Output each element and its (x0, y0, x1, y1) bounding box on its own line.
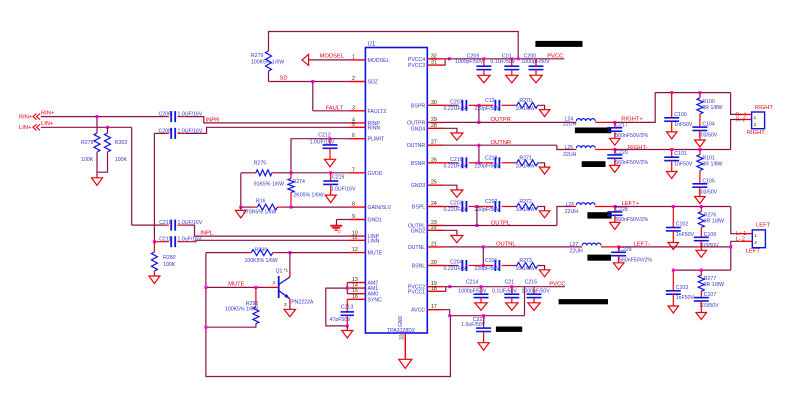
pin 32 PVCC4 (408, 53, 444, 63)
svg-text:C204: C204 (450, 260, 463, 266)
svg-text:100K5% 1/6W: 100K5% 1/6W (225, 306, 258, 312)
resistor R271 (511, 155, 545, 169)
wire LEFT+ bus (615, 205, 731, 208)
wire RIGHT- bus (615, 148, 731, 151)
svg-text:22: 22 (431, 225, 437, 231)
node AM1 (346, 287, 349, 290)
svg-text:1.0UF/16V: 1.0UF/16V (310, 140, 335, 146)
pin 13 AM2 (349, 277, 378, 287)
svg-text:10 1/6W: 10 1/6W (516, 207, 535, 213)
ground C103 (668, 306, 679, 313)
wire LEFT- lower bus (672, 269, 731, 272)
pin 22 GND2 (411, 225, 444, 235)
capacitor C106 (694, 232, 719, 251)
capacitor C13 (474, 98, 511, 112)
svg-text:C212: C212 (318, 133, 331, 139)
svg-text:LEFT: LEFT (756, 222, 771, 228)
wire AVCC row (450, 315, 525, 317)
net RIGHT+ (621, 117, 643, 123)
svg-text:C106: C106 (704, 232, 717, 238)
svg-text:C215: C215 (525, 279, 538, 285)
ground C215 (528, 303, 540, 311)
svg-text:OUTPR: OUTPR (491, 117, 511, 123)
node top wire joins PVCC (517, 57, 520, 60)
svg-text:33: 33 (400, 334, 406, 340)
capacitor C219 (323, 173, 356, 195)
op-amp U1 TPA3128D2 IC body (365, 42, 427, 335)
svg-text:MUTE: MUTE (228, 281, 245, 287)
capacitor C103 (666, 270, 695, 306)
svg-text:R274: R274 (293, 179, 306, 185)
pin 18 PVCC1 (408, 286, 444, 296)
ground Q1 emitter (284, 305, 296, 317)
node RIN+ R278 (96, 115, 99, 118)
wire AVCC to PVCC (524, 287, 526, 316)
pin 15 AM0 (349, 288, 378, 298)
MODSEL open flag (302, 54, 349, 66)
resistor R279 (251, 51, 284, 71)
ground C105 (695, 197, 706, 204)
svg-text:PVCC3: PVCC3 (408, 63, 425, 69)
svg-text:26: 26 (431, 157, 437, 163)
node loop mute (204, 286, 207, 289)
svg-text:SYNC: SYNC (368, 297, 383, 303)
wire LIN+ across (41, 126, 132, 128)
svg-text:L26: L26 (566, 202, 575, 208)
wire GND3 (444, 185, 457, 190)
wire AM2-AM1-AM0 tie (347, 283, 349, 294)
redaction bar top (535, 41, 582, 47)
svg-text:1nF50V: 1nF50V (674, 122, 693, 128)
wire SYNC to C213 (347, 299, 349, 312)
svg-text:C229: C229 (619, 247, 632, 253)
wire LIN+ down (131, 127, 133, 225)
svg-text:C13: C13 (485, 98, 495, 104)
wire LIN+ to C210 (132, 224, 164, 226)
capacitor C203 (444, 201, 477, 214)
capacitor C100 (664, 93, 693, 132)
node PVCC2 row (448, 285, 451, 288)
svg-text:RINN: RINN (368, 125, 381, 131)
svg-text:100K: 100K (163, 262, 176, 268)
svg-text:GND2: GND2 (411, 228, 426, 234)
node OUTPR (477, 121, 480, 124)
svg-text:GND3: GND3 (411, 183, 426, 189)
wire AM loop (326, 288, 348, 326)
svg-text:C100: C100 (674, 112, 687, 118)
redaction bar L27 (587, 255, 611, 261)
inductor L27 (570, 242, 619, 255)
svg-text:11: 11 (352, 235, 357, 241)
svg-text:MUTE: MUTE (368, 251, 383, 257)
svg-text:25: 25 (431, 180, 437, 186)
wire R- down (731, 120, 741, 150)
wire BSPL to OUTPL (476, 207, 478, 226)
resistor R16 (241, 199, 291, 216)
pin 10 LINP (349, 231, 380, 241)
svg-text:AVCC: AVCC (411, 308, 425, 314)
svg-text:RIGHT+: RIGHT+ (621, 117, 643, 123)
pin 26 BSNR (411, 157, 444, 167)
svg-text:LINN: LINN (368, 238, 380, 244)
capacitor C104 (692, 122, 717, 140)
ground for pin 33 (399, 359, 412, 368)
resistor R101 (697, 150, 723, 184)
wire GVDD left down (240, 173, 242, 207)
ground C107 (696, 313, 707, 320)
svg-text:R278: R278 (81, 140, 94, 146)
node MUTE collector (288, 251, 291, 254)
svg-text:C206: C206 (159, 112, 172, 118)
resistor R278 (81, 117, 100, 178)
pin 19 PVCC2 (408, 281, 444, 291)
wire gain gnd lead (240, 207, 242, 210)
pin 30 BSPR (411, 100, 443, 110)
svg-text:*1: *1 (284, 268, 289, 273)
pin 24 BSPL (412, 201, 444, 211)
ground C212 (325, 159, 336, 167)
ground C102 (668, 243, 679, 250)
wire GND4 (444, 128, 457, 133)
wire OUTPL step up (557, 207, 570, 226)
ground C219 (325, 195, 336, 203)
svg-text:R272: R272 (519, 199, 532, 205)
pin 25 GND3 (411, 180, 444, 190)
svg-text:R279: R279 (251, 53, 264, 59)
ground R271 (539, 167, 550, 174)
ground C228 (610, 222, 621, 229)
capacitor C204 (444, 260, 484, 273)
svg-text:PVCC1: PVCC1 (408, 289, 425, 295)
svg-text:BSNR: BSNR (411, 161, 426, 167)
node AVCC (448, 314, 451, 317)
svg-text:22UH: 22UH (563, 152, 577, 158)
wire pin18 bracket (444, 287, 446, 292)
svg-text:OUTPL: OUTPL (491, 220, 511, 226)
wire OUTPL row (444, 220, 557, 226)
svg-text:1.0uF/50V: 1.0uF/50V (461, 322, 485, 328)
wire C208 left down (153, 133, 155, 241)
pin 4 RINP (349, 117, 380, 127)
svg-text:0.1UF/50V: 0.1UF/50V (492, 289, 517, 295)
pin 12 MUTE (349, 247, 383, 257)
svg-text:2: 2 (754, 122, 757, 128)
wire OUTNR step (557, 145, 570, 149)
svg-text:OUTNR: OUTNR (407, 143, 426, 149)
node C222 (482, 314, 485, 317)
ground C220 (610, 165, 621, 172)
node C219 (329, 171, 332, 174)
ground C222 (478, 343, 489, 351)
svg-text:R16: R16 (256, 199, 266, 205)
ground R278/R303 (92, 178, 103, 186)
svg-text:C107: C107 (704, 292, 717, 298)
ground C200 (530, 75, 542, 83)
svg-text:2: 2 (754, 240, 757, 246)
wire LEFT- bus (619, 246, 731, 248)
capacitor C206 (159, 111, 203, 122)
svg-text:3R 1/8W: 3R 1/8W (704, 282, 724, 288)
node C211 R280 (153, 240, 156, 243)
svg-text:12: 12 (352, 247, 358, 253)
ground C214 (475, 303, 487, 311)
ground C217 (610, 138, 621, 145)
wire PVCC row (444, 53, 565, 59)
svg-text:24: 24 (431, 201, 437, 207)
pin 9 GND1 (349, 214, 382, 224)
redaction bar L26 (587, 212, 611, 218)
ground GAIN row (235, 210, 246, 218)
svg-text:470R5% 1/6W: 470R5% 1/6W (243, 209, 277, 215)
wire RIGHT+ up (615, 93, 655, 123)
svg-text:C208: C208 (159, 128, 172, 134)
svg-text:220pF/50V: 220pF/50V (474, 163, 500, 169)
svg-text:BSPL: BSPL (412, 205, 425, 211)
svg-text:1000pF/50V: 1000pF/50V (458, 289, 487, 295)
svg-text:INPR: INPR (206, 118, 220, 124)
svg-text:TPA3128D2: TPA3128D2 (387, 328, 415, 334)
wire bus to R+ (731, 93, 741, 115)
resistor R303 (97, 127, 128, 172)
node R274 bottom (290, 206, 293, 209)
wire RIGHT+ bus (655, 91, 730, 94)
svg-text:PN2222A: PN2222A (291, 299, 314, 305)
pin 14 AM1 (349, 283, 378, 293)
svg-text:C218: C218 (485, 155, 498, 161)
capacitor C201 (474, 258, 511, 272)
ground C10 (506, 75, 518, 83)
svg-text:3R 1/8W: 3R 1/8W (702, 105, 722, 111)
svg-text:3: 3 (352, 105, 355, 111)
capacitor C105 (692, 178, 717, 196)
svg-text:GND4: GND4 (411, 126, 426, 132)
pin 17 AVCC (411, 304, 443, 314)
svg-text:1: 1 (352, 54, 355, 60)
svg-text:100K5% 1/6W: 100K5% 1/6W (251, 60, 284, 66)
svg-text:0.22UF/50: 0.22UF/50 (444, 207, 468, 213)
capacitor C214 (458, 279, 488, 303)
pin 33 GND pad (400, 333, 406, 359)
node GVDD R274 (290, 171, 293, 174)
pin 7 GVDD (349, 167, 383, 177)
svg-text:17: 17 (431, 304, 437, 310)
node PVCC row (448, 57, 451, 60)
ground R273 (539, 270, 550, 277)
ground GND4 (451, 133, 463, 140)
wire INPR to pin 4 (186, 117, 349, 124)
redaction bar L24 (575, 128, 611, 134)
resistor R275 (241, 161, 291, 188)
ground GND2 (451, 236, 463, 243)
svg-text:16: 16 (352, 294, 358, 300)
svg-text:PVCC: PVCC (549, 281, 565, 287)
svg-text:R273: R273 (519, 258, 532, 264)
svg-text:C207: C207 (450, 99, 463, 105)
transistor Q1 PN2222A (273, 253, 314, 307)
wire LEFT+ to L+ (731, 207, 741, 234)
svg-text:100K5% 1/6W: 100K5% 1/6W (245, 258, 278, 264)
svg-text:BSPR: BSPR (411, 103, 425, 109)
svg-text:C203: C203 (450, 201, 463, 207)
resistor R273 (511, 258, 545, 272)
svg-text:GAIN/SLV: GAIN/SLV (368, 205, 392, 211)
svg-text:103/50V: 103/50V (698, 189, 718, 195)
ground R270 (539, 110, 550, 117)
node LIN+ R303 (106, 126, 109, 129)
capacitor C101 (664, 150, 693, 172)
svg-text:FAULT: FAULT (326, 105, 344, 111)
svg-text:0.22UF/50: 0.22UF/50 (444, 106, 468, 112)
inductor L24 (563, 117, 615, 128)
svg-text:22UH: 22UH (563, 122, 577, 128)
resistor R280 (151, 242, 175, 276)
svg-text:7: 7 (352, 167, 355, 173)
svg-text:0.1UF/50V: 0.1UF/50V (490, 59, 515, 65)
capacitor C10 (490, 53, 519, 75)
capacitor C208 (154, 128, 202, 139)
pin 29 OUTPR (407, 117, 443, 127)
svg-text:2K05% 1/6W: 2K05% 1/6W (293, 192, 323, 198)
ground C104 (695, 140, 706, 147)
svg-text:10 1/6W: 10 1/6W (516, 163, 535, 169)
svg-text:30: 30 (431, 100, 437, 106)
wire OUTNR row (444, 140, 557, 147)
port LIN+ (19, 121, 54, 131)
svg-text:21: 21 (431, 241, 437, 247)
pin 28 GND4 (411, 123, 444, 133)
wire pin31 bracket (444, 59, 446, 65)
svg-text:C228: C228 (615, 207, 628, 213)
capacitor C215 (522, 279, 551, 303)
svg-text:100K: 100K (81, 157, 94, 163)
pin 6 PLIMIT (349, 133, 385, 143)
capacitor C202 (474, 199, 511, 213)
svg-text:2: 2 (273, 280, 276, 285)
svg-text:R303: R303 (115, 140, 128, 146)
svg-text:RIGHT: RIGHT (755, 105, 773, 111)
svg-text:1: 1 (754, 233, 757, 239)
pin 8 GAIN/SLV (349, 202, 392, 212)
ground R280 (149, 276, 160, 284)
capacitor C200 (521, 53, 550, 75)
wire GND1 (337, 220, 350, 226)
wire big loop (206, 253, 451, 377)
port RIN+ (19, 111, 55, 121)
ground C106 (696, 250, 707, 257)
svg-text:C101: C101 (674, 151, 687, 157)
node loop R296 (204, 326, 207, 329)
svg-text:MODSEL: MODSEL (320, 54, 345, 60)
resistor R272 (511, 199, 545, 213)
resistor R277 (698, 270, 724, 298)
wire GND2 (444, 230, 457, 235)
wire RIN+ to C206 (41, 116, 163, 118)
svg-text:2: 2 (352, 76, 355, 82)
svg-text:1nF50V: 1nF50V (674, 162, 693, 168)
wire PVCC bottom row (444, 281, 566, 287)
svg-text:220pF/50V: 220pF/50V (474, 106, 500, 112)
svg-text:1nF50V: 1nF50V (676, 232, 695, 238)
svg-text:22UH: 22UH (570, 249, 584, 255)
pin 27 OUTNR (407, 140, 444, 150)
svg-text:GVDD: GVDD (368, 171, 383, 177)
wire OUTNR to BSNR (478, 145, 480, 163)
svg-text:C102: C102 (676, 222, 689, 228)
resistor R100 (697, 93, 723, 128)
wire BSPR to OUTPR (478, 105, 480, 122)
node C204/C201 (482, 264, 485, 267)
svg-text:9: 9 (352, 214, 355, 220)
svg-text:GND1: GND1 (368, 218, 383, 224)
svg-text:PLIMIT: PLIMIT (368, 137, 386, 143)
svg-text:RIGHT: RIGHT (747, 130, 765, 136)
svg-text:GND: GND (398, 316, 404, 328)
svg-text:103/50V: 103/50V (699, 243, 719, 249)
pin 20 BSNL (412, 260, 444, 270)
connector RIGHT (736, 105, 774, 136)
svg-text:22UH: 22UH (565, 209, 579, 215)
wire C208 to pin 5 RINN (186, 127, 349, 133)
wire C213 gnd lead (346, 326, 348, 331)
capacitor C217 (607, 121, 648, 139)
pin 5 RINN (349, 122, 380, 132)
capacitor C21 (492, 279, 519, 303)
capacitor C102 (666, 207, 695, 243)
svg-text:C214: C214 (466, 279, 479, 285)
node C216/C218 (477, 161, 480, 164)
svg-text:R271: R271 (519, 155, 532, 161)
pin 3 FAULTZ (349, 105, 386, 115)
svg-text:C211: C211 (159, 237, 171, 243)
ground C101 (667, 172, 678, 179)
wire PLIMIT row (291, 139, 349, 173)
svg-text:R270: R270 (519, 98, 532, 104)
pin 21 OUTNL (408, 241, 444, 251)
inductor L25 (563, 145, 615, 158)
svg-text:220pF/50V: 220pF/50V (474, 207, 500, 213)
ground C21 (506, 303, 518, 311)
svg-text:220pF/50V: 220pF/50V (474, 266, 500, 272)
svg-text:0.22UF/50: 0.22UF/50 (444, 163, 468, 169)
svg-text:103/50V: 103/50V (699, 303, 719, 309)
svg-text:RIN+: RIN+ (41, 111, 55, 117)
ground GND3 (451, 190, 463, 197)
svg-text:C217: C217 (615, 123, 628, 129)
svg-text:SDZ: SDZ (368, 80, 378, 86)
svg-text:10 1/6W: 10 1/6W (516, 106, 535, 112)
resistor R276 (698, 207, 724, 238)
node C203/C202 (475, 205, 478, 208)
pin 16 SYNC (349, 294, 382, 304)
node LEFT- join (729, 245, 732, 248)
capacitor C107 (694, 292, 719, 312)
wire OUTPR row (444, 117, 571, 123)
redaction bar L25 (582, 161, 606, 167)
capacitor C229 (611, 245, 652, 263)
svg-text:C210: C210 (159, 220, 172, 226)
wire OUTNL row (444, 242, 583, 249)
svg-text:C201: C201 (485, 258, 498, 264)
capacitor C228 (607, 205, 648, 223)
svg-text:LIN+: LIN+ (19, 125, 32, 131)
svg-text:MODSEL: MODSEL (368, 58, 390, 64)
svg-text:LEFT: LEFT (746, 248, 761, 254)
svg-text:1000pF/50V: 1000pF/50V (521, 59, 550, 65)
svg-text:SD: SD (280, 76, 288, 82)
svg-text:INPL: INPL (200, 230, 214, 236)
node OUTPL (475, 224, 478, 227)
svg-text:Q1: Q1 (276, 269, 283, 275)
